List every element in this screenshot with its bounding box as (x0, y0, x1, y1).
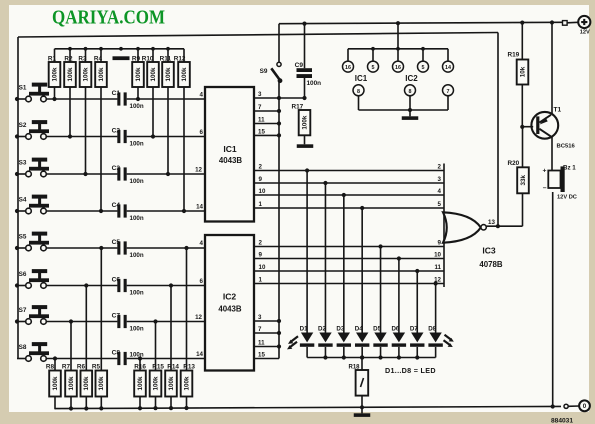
svg-text:100k: 100k (67, 67, 74, 82)
wire IC3 output (486, 225, 522, 227)
svg-text:3: 3 (438, 176, 442, 183)
wire R8 to 0V rail (54, 397, 56, 410)
svg-text:5: 5 (372, 65, 375, 71)
ground under R17 (297, 144, 314, 148)
svg-text:S8: S8 (19, 344, 27, 351)
junction frame row 2 (15, 134, 19, 138)
wire to ground symbol below rail (361, 407, 363, 413)
wire row 3 switch to C3 (46, 173, 117, 175)
svg-text:4043B: 4043B (219, 156, 243, 165)
svg-text:R15: R15 (152, 364, 164, 371)
svg-text:IC2: IC2 (405, 74, 418, 83)
resistor R16 (134, 364, 146, 397)
svg-text:D6: D6 (391, 326, 399, 333)
svg-text:100k: 100k (51, 67, 58, 82)
svg-text:5: 5 (438, 201, 442, 208)
svg-text:100k: 100k (150, 67, 157, 82)
ground under ICs (402, 116, 419, 120)
svg-text:C3: C3 (112, 165, 121, 172)
capacitor C3 (112, 165, 144, 185)
svg-text:IC2: IC2 (223, 292, 237, 302)
svg-text:2: 2 (438, 164, 442, 171)
LED D3 (336, 326, 351, 347)
svg-text:R14: R14 (167, 364, 179, 371)
junction supply/IC power header (396, 21, 400, 25)
junction base node (520, 125, 524, 129)
wire row 7 left (17, 321, 26, 323)
wire R4 to row 4 (100, 87, 102, 211)
IC supply pin circle 16 (393, 49, 404, 72)
svg-text:33k: 33k (520, 175, 527, 186)
capacitor C5 (112, 239, 144, 259)
IC2 pin 11 wire (254, 346, 279, 348)
svg-text:4: 4 (200, 240, 204, 247)
wire row 1 left (17, 98, 26, 100)
svg-text:9: 9 (259, 176, 263, 183)
wire 0V bottom rail (55, 406, 561, 408)
capacitor C8 (112, 349, 144, 365)
svg-text:100n: 100n (130, 178, 144, 185)
svg-text:100n: 100n (130, 103, 144, 110)
svg-text:T1: T1 (554, 107, 562, 114)
svg-text:4043B: 4043B (218, 305, 242, 314)
transistor T1 BC516 (531, 107, 575, 150)
svg-text:100k: 100k (82, 67, 89, 82)
svg-text:R4: R4 (94, 56, 103, 63)
IC2 pin 3 wire (254, 320, 279, 322)
svg-text:S5: S5 (19, 234, 27, 241)
wire R17 bottom to ground (304, 135, 306, 144)
IC3 input bar (443, 164, 445, 288)
wire bus to LED D7 anode (416, 271, 418, 333)
svg-text:11: 11 (434, 264, 441, 271)
svg-text:6: 6 (200, 129, 204, 136)
svg-text:100k: 100k (135, 67, 142, 82)
wire LED D3 cathode (343, 347, 345, 358)
svg-text:100n: 100n (130, 290, 144, 297)
svg-text:100k: 100k (165, 67, 172, 82)
capacitor C1 (112, 90, 144, 110)
svg-text:10: 10 (434, 252, 441, 259)
svg-text:100k: 100k (68, 376, 75, 391)
svg-text:C7: C7 (112, 312, 121, 319)
svg-text:100k: 100k (301, 115, 308, 130)
wire rail to R9 (137, 49, 139, 62)
resistor R13 (181, 364, 196, 397)
wire R6 to 0V rail (85, 397, 87, 410)
wire row 6 left (17, 285, 26, 287)
wire rail to R4 (100, 49, 102, 62)
push-button switch S2 (19, 120, 49, 139)
svg-text:R6: R6 (77, 364, 86, 371)
IC ground pin circle 8 (405, 85, 416, 110)
wire LED D8 cathode (435, 347, 437, 358)
connector square top right (563, 21, 568, 26)
resistor R9 (132, 56, 144, 88)
LED D8 (428, 326, 443, 347)
svg-text:100k: 100k (137, 376, 144, 391)
wire rail to R3 (85, 49, 87, 62)
svg-text:R17: R17 (292, 104, 304, 111)
wire R1 to row 1 (54, 87, 56, 99)
wire row 8 switch to C8 (46, 358, 117, 360)
svg-text:R5: R5 (92, 364, 101, 371)
svg-text:100n: 100n (130, 326, 144, 333)
resistor R3 (78, 56, 91, 88)
svg-text:16: 16 (395, 65, 401, 71)
svg-text:100n: 100n (130, 141, 144, 148)
IC supply pin circle 5 (368, 49, 379, 72)
resistor R19 (508, 52, 529, 85)
bus wire IC1 pin 9 to IC3 pin 3 (254, 182, 444, 184)
svg-text:100k: 100k (183, 376, 190, 391)
resistor R17 (292, 104, 311, 136)
svg-text:S1: S1 (19, 85, 27, 92)
svg-text:100n: 100n (130, 252, 144, 259)
IC U1 4043B box (205, 87, 254, 222)
svg-text:R2: R2 (64, 56, 73, 63)
capacitor C2 (112, 127, 144, 147)
junction frame/IC3 output (496, 224, 500, 228)
svg-text:D8: D8 (428, 326, 436, 333)
bus wire IC2 pin 1 to IC3 pin 12 (254, 283, 444, 285)
resistor R18 (348, 364, 368, 395)
wire rail to R12 (183, 49, 185, 62)
IC ground pin circle 8 (353, 85, 364, 110)
wire rail to R1 (54, 49, 56, 62)
resistor R4 (94, 56, 107, 88)
svg-text:8: 8 (409, 89, 412, 95)
wire row 3 left (17, 173, 26, 175)
svg-text:R9: R9 (132, 56, 141, 63)
wire row 4 cap to IC (127, 210, 205, 212)
LED D2 (318, 326, 333, 347)
capacitor C6 (112, 276, 144, 296)
terminal 0V (579, 400, 590, 411)
svg-text:13: 13 (488, 219, 495, 226)
push-button switch S6 (19, 269, 49, 288)
wire LED D2 cathode (324, 347, 326, 358)
svg-text:7: 7 (258, 326, 262, 333)
svg-text:D7: D7 (410, 326, 418, 333)
junction frame row 3 (15, 172, 19, 176)
push-button switch S3 (19, 158, 49, 177)
LED D4 (355, 326, 370, 347)
junction rail x=138 (136, 47, 140, 51)
junction frame row 4 (15, 209, 19, 213)
svg-text:100k: 100k (52, 376, 59, 391)
capacitor C9 (295, 24, 322, 98)
wire LED D7 cathode (416, 347, 418, 358)
svg-text:D4: D4 (355, 326, 363, 333)
svg-text:1: 1 (259, 201, 263, 208)
svg-text:+: + (543, 167, 547, 174)
junction rail x=153 (151, 47, 155, 51)
IC2 left pin labels (195, 240, 203, 358)
wire row 7 to R15 (155, 322, 157, 371)
wire row 4 switch to C4 (46, 210, 117, 212)
svg-text:C6: C6 (112, 276, 121, 283)
resistor R1 (48, 56, 60, 88)
light arrows D1 (287, 336, 298, 349)
svg-text:C1: C1 (112, 90, 121, 97)
buzzer Bz1 (543, 164, 577, 200)
junction rail x=121 (119, 47, 123, 51)
IC U2 4043B box (205, 235, 254, 371)
resistor R7 (62, 364, 77, 397)
svg-text:15: 15 (258, 352, 265, 359)
wire row 2 switch to C2 (46, 136, 117, 138)
bus wire IC1 pin 1 to IC3 pin 5 (254, 207, 444, 209)
wire bus to LED D6 anode (398, 259, 400, 333)
svg-text:D3: D3 (336, 326, 344, 333)
wire R16 to 0V rail (139, 397, 141, 409)
wire row 7 cap to IC (127, 321, 205, 323)
svg-text:S2: S2 (19, 122, 27, 129)
wire R9 to row 1 (137, 87, 139, 99)
svg-text:100n: 100n (130, 215, 144, 222)
wire row 6 to R6 (85, 286, 87, 371)
svg-text:15: 15 (258, 129, 265, 136)
wire bus to LED D3 anode (343, 195, 345, 333)
junction rail x=168 (166, 47, 170, 51)
svg-text:10k: 10k (519, 66, 526, 77)
wire T1 emitter to supply (551, 23, 553, 115)
wire row 7 to R7 (70, 322, 72, 371)
svg-text:9: 9 (438, 240, 442, 247)
svg-text:3: 3 (258, 91, 262, 98)
wire row 8 cap to IC (127, 358, 205, 360)
svg-text:4: 4 (200, 92, 204, 99)
svg-text:12: 12 (195, 167, 202, 174)
svg-text:S3: S3 (19, 160, 27, 167)
junction cathode rail to R18 (360, 355, 364, 359)
svg-text:1: 1 (259, 277, 263, 284)
wire R2 to row 2 (69, 87, 71, 137)
svg-text:14: 14 (196, 351, 203, 358)
svg-text:C2: C2 (112, 127, 121, 134)
wire buzzer to 0V rail (552, 192, 554, 407)
svg-text:R20: R20 (508, 160, 520, 167)
svg-text:9: 9 (259, 252, 263, 259)
push-button switch S4 (19, 195, 49, 214)
svg-text:16: 16 (345, 65, 351, 71)
svg-text:8: 8 (357, 89, 360, 95)
svg-text:12: 12 (195, 314, 202, 321)
wire row 5 left (17, 247, 26, 249)
svg-text:11: 11 (258, 340, 265, 347)
wire row 1 cap to IC (127, 98, 205, 100)
IC ground bus wire (359, 109, 449, 111)
wire to 0V terminal (568, 405, 579, 407)
svg-text:100k: 100k (98, 376, 105, 391)
svg-text:2: 2 (259, 240, 263, 247)
junction supply/C9 (302, 22, 306, 26)
svg-text:S4: S4 (19, 197, 27, 204)
wire LED D5 cathode (380, 347, 382, 358)
svg-text:4: 4 (438, 188, 442, 195)
svg-text:D1...D8 = LED: D1...D8 = LED (385, 366, 436, 375)
svg-text:100k: 100k (181, 67, 188, 82)
ground under R18 (354, 413, 371, 417)
wire row 8 to R8 (54, 359, 56, 371)
wire row 6 cap to IC (127, 285, 205, 287)
wire row 6 to R14 (170, 286, 172, 371)
resistor R10 (142, 56, 159, 88)
thick bar (blacked-out mark) (113, 56, 130, 60)
wire resistor pull-up rail (55, 48, 185, 50)
resistor R2 (64, 56, 76, 88)
wire +12V supply rail (279, 22, 563, 23)
wire rail to R18 (361, 358, 363, 371)
svg-text:S6: S6 (19, 271, 27, 278)
resistor R11 (160, 56, 174, 88)
bus wire IC1 pin 2 to IC3 pin 2 (254, 170, 444, 172)
resistor R20 (508, 160, 529, 193)
wire rail to R2 (69, 49, 71, 62)
svg-text:IC1: IC1 (223, 144, 237, 154)
svg-text:R1: R1 (48, 56, 57, 63)
wire row 5 cap to IC (127, 247, 205, 249)
wire row 2 cap to IC (127, 136, 205, 138)
wire bus to LED D8 anode (435, 284, 437, 333)
wire R11 to row 3 (167, 87, 169, 174)
bus wire IC2 pin 9 to IC3 pin 10 (254, 258, 444, 260)
svg-text:100n: 100n (307, 80, 322, 87)
push-button switch S1 (19, 83, 49, 102)
svg-text:S7: S7 (19, 307, 27, 314)
wire R10 to row 2 (152, 87, 154, 137)
push-button switch S5 (19, 232, 49, 251)
wire pin3 row to R17 node (279, 97, 305, 99)
svg-text:12V DC: 12V DC (557, 194, 577, 200)
LED D5 (373, 326, 388, 347)
svg-text:0: 0 (583, 403, 587, 410)
junction frame row 5 (15, 246, 19, 250)
capacitor C4 (112, 202, 144, 222)
wire R5 to 0V rail (100, 397, 102, 410)
IC supply pin circle 5 (418, 49, 429, 72)
svg-text:R10: R10 (142, 56, 154, 63)
svg-text:10: 10 (259, 264, 266, 271)
push-button switch S7 (19, 305, 49, 324)
wire row 3 cap to IC (127, 173, 205, 175)
wire row 1 switch to C1 (46, 98, 117, 100)
svg-text:C8: C8 (112, 349, 121, 356)
wire supply to R19 (521, 23, 523, 60)
capacitor C7 (112, 312, 144, 332)
wire row 8 left (17, 358, 26, 360)
svg-text:884031: 884031 (551, 417, 573, 424)
wire R15 to 0V rail (155, 397, 157, 409)
svg-text:R8: R8 (46, 364, 55, 371)
IC power header wire (348, 48, 448, 50)
wire row 6 switch to C6 (46, 285, 117, 287)
svg-text:R16: R16 (134, 364, 146, 371)
svg-text:R13: R13 (183, 364, 195, 371)
wire to +12V terminal (567, 21, 578, 24)
junction R18/0V rail (360, 405, 364, 409)
resistor R8 (46, 364, 61, 397)
wire bus to LED D5 anode (380, 247, 382, 333)
op-amp/gate IC3 4078B NOR (443, 212, 503, 268)
svg-text:D5: D5 (373, 326, 381, 333)
LED D7 (410, 326, 425, 347)
LED D1 (300, 326, 315, 347)
wire frame right vertical to IC3 output (497, 33, 499, 227)
wire frame top (common loop) (18, 33, 498, 38)
svg-text:14: 14 (196, 204, 203, 211)
wire R3 to row 3 (85, 87, 87, 174)
wire row 7 switch to C7 (46, 321, 117, 323)
junction buzzer/0V rail (551, 404, 555, 408)
svg-text:R12: R12 (174, 56, 186, 63)
resistor R5 (92, 364, 107, 397)
svg-text:C9: C9 (295, 62, 304, 69)
svg-text:14: 14 (445, 65, 451, 71)
wire R19 to T1 base (521, 85, 523, 128)
wire row 8 to R16 (139, 359, 141, 371)
svg-text:IC1: IC1 (355, 74, 368, 83)
svg-text:R3: R3 (78, 56, 87, 63)
svg-text:R19: R19 (508, 52, 520, 59)
IC supply pin circle 16 (343, 49, 354, 72)
junction supply/T1 emitter (550, 20, 554, 24)
resistor R14 (165, 364, 179, 397)
svg-text:C5: C5 (112, 239, 121, 246)
svg-text:R11: R11 (160, 56, 172, 63)
svg-text:Bz 1: Bz 1 (563, 164, 576, 171)
resistor R12 (174, 56, 190, 88)
resistor R15 (150, 364, 165, 397)
wire row 2 left (17, 136, 26, 138)
connector circle bottom right (564, 404, 568, 408)
wire T1 collector to buzzer (551, 137, 553, 171)
wire row 5 to R13 (186, 248, 188, 371)
wire LED D6 cathode (398, 347, 400, 358)
LED D6 (391, 326, 406, 347)
svg-text:100k: 100k (83, 376, 90, 391)
svg-text:C4: C4 (112, 202, 121, 209)
resistor R6 (77, 364, 92, 397)
svg-text:BC516: BC516 (557, 144, 576, 150)
svg-text:12V: 12V (580, 30, 590, 36)
svg-text:7: 7 (447, 89, 450, 95)
svg-text:4078B: 4078B (479, 260, 503, 269)
svg-text:S9: S9 (260, 68, 268, 75)
bus wire IC1 pin 10 to IC3 pin 4 (254, 194, 444, 196)
wire R14 to 0V rail (170, 397, 172, 409)
LED cathode rail (307, 357, 436, 359)
wire to IC ground symbol (409, 110, 411, 116)
svg-text:–: – (543, 185, 547, 192)
svg-text:100k: 100k (168, 376, 175, 391)
IC ground pin circle 7 (443, 85, 454, 110)
svg-text:R18: R18 (348, 364, 360, 370)
svg-text:D1: D1 (300, 326, 308, 333)
push-button switch S8 (19, 342, 49, 361)
svg-text:10: 10 (259, 188, 266, 195)
junction rail x=101 (99, 47, 103, 51)
wire row 4 left (17, 210, 26, 212)
bus wire IC2 pin 2 to IC3 pin 9 (254, 246, 444, 248)
svg-text:QARIYA.COM: QARIYA.COM (52, 6, 165, 28)
junction frame row 1 (15, 97, 19, 101)
wire R12 to row 4 (183, 87, 185, 211)
wire rail to R11 (167, 49, 169, 62)
junction frame row 6 (15, 283, 19, 287)
IC2 pin 7 wire (254, 332, 279, 334)
